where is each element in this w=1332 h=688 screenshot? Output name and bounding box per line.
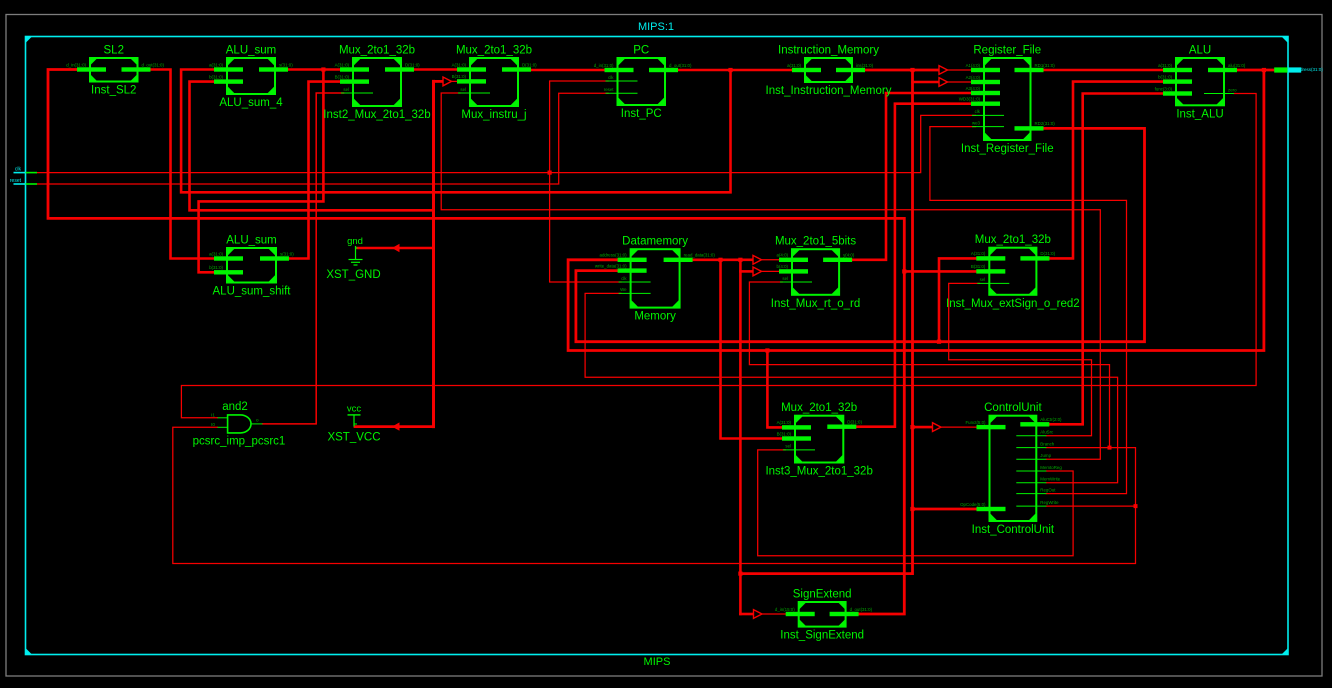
svg-text:a(31:0): a(31:0): [209, 251, 223, 256]
arrowhead gnd wire: [392, 244, 400, 252]
svg-text:ins(31:0): ins(31:0): [856, 63, 874, 68]
svg-text:s(31:0): s(31:0): [280, 251, 294, 256]
junction instr bus: [910, 68, 914, 72]
wire branch SignExtend net to Mux_extSign B: [904, 270, 981, 273]
junction PC out: [728, 68, 732, 72]
svg-text:and2: and2: [222, 401, 248, 413]
svg-text:address(31:0): address(31:0): [1295, 67, 1323, 72]
junction instr field/SignExtend: [738, 572, 742, 576]
junction instr/CU opcode: [910, 425, 914, 429]
wire net ALU_sum_shift out to Mux1 B: [285, 82, 345, 259]
svg-text:A2(4:0): A2(4:0): [966, 75, 981, 80]
svg-text:ALU_sum_shift: ALU_sum_shift: [213, 286, 292, 298]
wire branch clk to PC clk and Datamemory clk: [550, 81, 621, 282]
svg-text:B(31:0): B(31:0): [971, 264, 986, 269]
svg-text:AluCtr(2:0): AluCtr(2:0): [1040, 417, 1062, 422]
junction instr/CU funct input: [910, 507, 914, 511]
wire net RF RD2 to Datamemory write_data: [576, 128, 1145, 341]
component Datamemory Memory: [595, 236, 716, 323]
wire net const4 to ALU_sum_4 B: [190, 82, 434, 211]
svg-text:clk: clk: [608, 75, 614, 80]
svg-text:B(31:0): B(31:0): [777, 431, 792, 436]
wire net AluCtr: CU to ALU func: [1045, 94, 1167, 425]
svg-text:ControlUnit: ControlUnit: [984, 402, 1042, 414]
svg-text:Inst_Instruction_Memory: Inst_Instruction_Memory: [766, 85, 892, 97]
svg-text:MIPS: MIPS: [644, 656, 671, 668]
wire net RegOut: CU to RF we3: [930, 127, 1127, 494]
svg-text:Datamemory: Datamemory: [622, 236, 688, 248]
wire net Jump: CU to Mux_instru_j sel: [441, 93, 1100, 459]
svg-text:d_in(15:0): d_in(15:0): [775, 607, 795, 612]
svg-text:vcc: vcc: [347, 404, 362, 415]
svg-text:Inst_Mux_extSign_o_red2: Inst_Mux_extSign_o_red2: [946, 298, 1080, 310]
svg-text:XST_GND: XST_GND: [326, 269, 380, 281]
svg-text:Inst_SL2: Inst_SL2: [91, 85, 136, 97]
component adder ALU_sum_4: [209, 45, 293, 110]
svg-text:d_in(31:0): d_in(31:0): [66, 62, 86, 67]
input port reset: [10, 178, 37, 184]
svg-text:I0: I0: [211, 422, 215, 427]
svg-text:Mux_2to1_32b: Mux_2to1_32b: [975, 234, 1051, 246]
wire wire arrow to RF A1 pin: [948, 69, 976, 71]
svg-text:b(4:0): b(4:0): [777, 264, 789, 269]
svg-text:WD3(31:0): WD3(31:0): [959, 97, 981, 102]
svg-text:Mux_instru_j: Mux_instru_j: [461, 109, 526, 121]
svg-text:A(31:0): A(31:0): [452, 62, 467, 67]
wire net Mux_instru_j D to PC: [527, 69, 609, 72]
component Register_File: [959, 45, 1056, 156]
svg-text:SignExtend: SignExtend: [793, 589, 852, 601]
svg-text:alu(31:0): alu(31:0): [1228, 63, 1246, 68]
svg-text:Inst2_Mux_2to1_32b: Inst2_Mux_2to1_32b: [323, 109, 430, 121]
svg-text:Branch: Branch: [1040, 441, 1054, 446]
svg-text:Register_File: Register_File: [973, 45, 1041, 57]
wire net SignExtend out to SL2 in / MuxExt B: [48, 70, 904, 615]
svg-text:Jump: Jump: [1040, 453, 1051, 458]
svg-text:clk: clk: [621, 276, 627, 281]
component Instruction_Memory: [766, 45, 892, 98]
svg-text:MemtoReg: MemtoReg: [1040, 465, 1062, 470]
svg-text:a(31:0): a(31:0): [787, 63, 801, 68]
svg-text:clk: clk: [975, 109, 981, 114]
wire net AluSrc: CU to Mux_extSign sel: [949, 283, 1092, 435]
svg-text:we3: we3: [972, 120, 981, 125]
wire net zero: ALU to and2 I1: [181, 94, 1256, 418]
wire wire arrow to Mux_instru_j B pin: [452, 80, 462, 82]
wire wire to SignExtend in arrow: [740, 613, 753, 616]
svg-text:d_out(31:0): d_out(31:0): [669, 63, 692, 68]
svg-text:B(31:0): B(31:0): [335, 74, 350, 79]
arrowhead RF A2: [939, 78, 948, 87]
svg-text:MIPS:1: MIPS:1: [638, 21, 674, 33]
component mux Inst_Mux_rt_o_rd: [771, 236, 861, 310]
svg-text:Inst_ALU: Inst_ALU: [1176, 108, 1223, 120]
svg-text:sel: sel: [782, 276, 788, 281]
junction RegWrite on bus: [1134, 504, 1138, 508]
svg-text:d_out(31:0): d_out(31:0): [142, 62, 165, 67]
junction read_data: [718, 258, 722, 262]
arrowhead Mux_rt a: [753, 255, 762, 264]
svg-text:I1: I1: [211, 413, 215, 418]
svg-text:read_data(31:0): read_data(31:0): [684, 253, 716, 258]
wire wire to Mux_rt a arrow: [740, 258, 753, 261]
ground XST_GND: [326, 236, 380, 281]
svg-text:Funct(5:0): Funct(5:0): [965, 420, 986, 425]
svg-text:address(31:0): address(31:0): [600, 253, 628, 258]
arrowhead SignExtend in: [754, 610, 763, 619]
svg-text:A(31:0): A(31:0): [971, 251, 986, 256]
wire branch instr bus down: [740, 70, 912, 574]
junction SignExt net/MuxExt B: [902, 269, 906, 273]
wire net PC+4: ALU_sum_4 out to Mux1 A: [284, 68, 345, 71]
wire branch instr to ControlUnit funct: [913, 508, 982, 511]
svg-text:write_data(31:0): write_data(31:0): [595, 263, 627, 268]
junction RD2/MuxExt A: [937, 340, 941, 344]
svg-text:Inst_SignExtend: Inst_SignExtend: [780, 630, 864, 642]
svg-text:o: o: [256, 418, 259, 423]
junction result/Mux3 A: [765, 348, 769, 352]
component mux Inst3_Mux_2to1_32b: [765, 402, 872, 477]
svg-text:func(3:0): func(3:0): [1155, 86, 1173, 91]
wire net clk trunk: [37, 115, 976, 172]
svg-text:sel: sel: [343, 87, 349, 92]
wire branch instr to ControlUnit opcode: [913, 426, 933, 429]
wire wire arrow to Mux_rt a pin: [762, 259, 784, 261]
svg-text:zero: zero: [1228, 87, 1237, 92]
wire wire arrow to SignExtend pin: [762, 613, 790, 615]
wire net MemtoReg: CU to Mux3 sel: [758, 450, 1073, 556]
svg-text:RegOut: RegOut: [1040, 487, 1056, 492]
component mux Inst2_Mux_2to1_32b: [323, 45, 430, 122]
wire net reset trunk to PC reset: [37, 93, 608, 184]
svg-text:D(31:0): D(31:0): [1040, 251, 1055, 256]
junction ALU result: [1262, 68, 1266, 72]
svg-text:AluSrc: AluSrc: [1040, 430, 1054, 435]
svg-text:B(31:0): B(31:0): [452, 74, 467, 79]
svg-text:Instruction_Memory: Instruction_Memory: [778, 45, 879, 57]
svg-text:D(31:0): D(31:0): [847, 420, 862, 425]
arrowhead Mux_instru_j B: [443, 77, 452, 86]
svg-text:reset: reset: [604, 87, 615, 92]
svg-text:y(4:0): y(4:0): [843, 253, 855, 258]
svg-text:gnd: gnd: [347, 236, 363, 247]
component SL2 Inst_SL2: [66, 45, 164, 97]
arrowhead Mux_rt b: [753, 267, 762, 276]
svg-text:d_in(31:0): d_in(31:0): [594, 63, 614, 68]
power XST_VCC: [327, 404, 380, 444]
component adder ALU_sum_shift: [209, 235, 294, 298]
svg-text:Inst_PC: Inst_PC: [621, 108, 662, 120]
wire net PC out to Instruction_Memory: [674, 69, 797, 72]
wire wire vcc to jump-bus: [355, 425, 434, 428]
svg-text:Mux_2to1_32b: Mux_2to1_32b: [456, 45, 532, 57]
svg-text:sel: sel: [980, 277, 986, 282]
arrowhead ControlUnit opcode: [933, 423, 942, 432]
wire net ALU result to port and Datamemory address: [568, 70, 1274, 351]
svg-text:d_out(31:0): d_out(31:0): [850, 607, 873, 612]
wire net SL2 out to ALU_sum_shift A: [146, 70, 219, 259]
wire net PC out to y192 to ALU_sum_4 A: [181, 70, 730, 193]
svg-text:Inst_Mux_rt_o_rd: Inst_Mux_rt_o_rd: [771, 298, 861, 310]
svg-text:ALU_sum: ALU_sum: [226, 45, 277, 57]
svg-text:b(31:0): b(31:0): [209, 265, 223, 270]
arrowhead RF A1: [939, 66, 948, 75]
svg-text:Mux_2to1_32b: Mux_2to1_32b: [781, 402, 857, 414]
wire net Mux1 D to Mux_instru_j A: [410, 68, 462, 71]
wire branch ALU result to Mux3 A: [767, 351, 786, 428]
wire branch RD2 to Mux_extSign A: [939, 258, 981, 341]
svg-text:RD1(31:0): RD1(31:0): [1035, 63, 1056, 68]
component ALU Inst_ALU: [1155, 45, 1246, 121]
svg-text:Memory: Memory: [634, 311, 676, 323]
component mux Inst_Mux_extSign_o_red2: [946, 234, 1080, 310]
wire net Mux_extSign D to ALU b: [1045, 82, 1167, 259]
wire branch instr to RF A2: [913, 81, 940, 84]
svg-text:RegWrite: RegWrite: [1040, 500, 1059, 505]
svg-text:MemWrite: MemWrite: [1040, 477, 1060, 482]
svg-text:ALU_sum: ALU_sum: [226, 235, 277, 247]
junction RegDst on row3: [1108, 446, 1112, 450]
wire wire RegWrite stub to bus: [1046, 505, 1135, 507]
svg-text:A1(4:0): A1(4:0): [966, 63, 981, 68]
svg-text:b(31:0): b(31:0): [209, 74, 223, 79]
svg-text:pcsrc_imp_pcsrc1: pcsrc_imp_pcsrc1: [193, 436, 286, 448]
wire net RF RD1 to ALU a: [1040, 69, 1168, 72]
wire net instr-field vertical to SignExtend: [739, 260, 742, 614]
component register PC Inst_PC: [594, 45, 692, 121]
svg-text:Inst3_Mux_2to1_32b: Inst3_Mux_2to1_32b: [765, 466, 872, 478]
svg-text:Mux_2to1_5bits: Mux_2to1_5bits: [775, 236, 856, 248]
and-gate pcsrc_imp_pcsrc1: [193, 401, 286, 448]
wire net Datamemory read_data: [689, 258, 741, 261]
svg-text:D(31:0): D(31:0): [522, 62, 537, 67]
junction PC+4 / Mux1 A: [321, 67, 325, 71]
svg-text:We: We: [620, 287, 627, 292]
wire net Mux3 D to RF WD3: [852, 104, 975, 427]
wire net RegDst branch: Mux_rt sel to CU row3: [749, 282, 1109, 448]
output port address(31:0): [1274, 67, 1323, 73]
svg-text:a(4:0): a(4:0): [777, 253, 789, 258]
svg-text:A3(4:0): A3(4:0): [966, 86, 981, 91]
svg-text:A(31:0): A(31:0): [335, 62, 350, 67]
wire net jump-bus vertical gnd/vcc: [432, 81, 435, 426]
junction clk/PC: [548, 171, 552, 175]
svg-text:ALU_sum_4: ALU_sum_4: [219, 97, 283, 109]
wire wire arrow to Mux_rt b pin: [762, 270, 784, 272]
wire wire arrow to RF A2 pin: [948, 81, 976, 83]
wire wire jump-bus to Mux_instru_j B: [434, 80, 444, 83]
svg-text:XST_VCC: XST_VCC: [327, 432, 380, 444]
wire net and2 out to Mux1 sel (pcsrc): [263, 93, 344, 424]
component SignExtend: [775, 589, 873, 642]
svg-text:a(31:0): a(31:0): [1158, 63, 1172, 68]
component ControlUnit: [960, 402, 1062, 536]
arrowhead vcc wire: [392, 422, 400, 430]
wire wire to Mux_rt b arrow: [740, 270, 753, 273]
svg-text:Inst_ControlUnit: Inst_ControlUnit: [972, 524, 1055, 536]
wire wire gnd to jump-bus: [358, 247, 434, 250]
svg-text:A(31:0): A(31:0): [777, 420, 792, 425]
svg-text:Mux_2to1_32b: Mux_2to1_32b: [339, 45, 415, 57]
wire wire arrow to ControlUnit pin: [941, 426, 981, 428]
svg-text:a(31:0): a(31:0): [209, 62, 223, 67]
svg-text:ALU: ALU: [1189, 45, 1211, 57]
junction instr fields: [738, 258, 742, 262]
svg-text:Inst_Register_File: Inst_Register_File: [961, 143, 1054, 155]
svg-text:b(31:0): b(31:0): [1158, 74, 1172, 79]
svg-text:sel: sel: [460, 87, 466, 92]
component mux Mux_instru_j: [452, 45, 538, 122]
input port clk: [14, 167, 38, 173]
svg-text:reset: reset: [10, 178, 22, 184]
svg-text:sel: sel: [785, 444, 791, 449]
wire branch PC+4 down to ALU_sum_shift B: [199, 70, 324, 273]
wire branch read_data to Mux3 B: [721, 260, 787, 439]
wire net Mux_rt out to RF A3: [848, 93, 975, 260]
svg-text:s(31:0): s(31:0): [279, 62, 293, 67]
svg-text:OpCode(5:0): OpCode(5:0): [960, 502, 986, 507]
wire net MemWrite: CU to Datamemory we: [585, 293, 1118, 482]
wire net instr: IM out toward RF A1: [861, 69, 939, 72]
svg-text:SL2: SL2: [104, 45, 124, 57]
svg-text:PC: PC: [633, 45, 649, 57]
svg-text:D(31:0): D(31:0): [405, 62, 420, 67]
wire net Branch: CU row3 to and2 I0: [173, 427, 1136, 563]
svg-text:clk: clk: [15, 167, 22, 173]
svg-text:RD2(31:0): RD2(31:0): [1035, 121, 1056, 126]
